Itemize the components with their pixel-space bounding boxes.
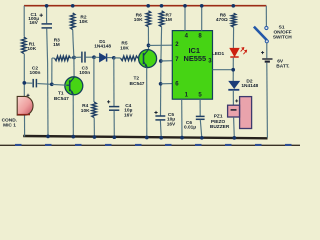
resistor R8	[231, 13, 236, 27]
svg-text:BATT.: BATT.	[276, 63, 289, 69]
wire R5 to T2 base	[138, 57, 143, 59]
wire D2 to buzzer	[232, 90, 234, 105]
node trigger junction	[147, 44, 151, 48]
svg-text:470Ω: 470Ω	[216, 17, 228, 23]
svg-text:10K: 10K	[120, 45, 129, 51]
label R8	[216, 13, 228, 23]
resistor R3	[55, 56, 71, 61]
wire to C3	[74, 56, 81, 58]
node C5 ground	[159, 136, 163, 140]
transistor T2	[139, 50, 157, 68]
svg-text:16V: 16V	[29, 20, 38, 26]
label IC1	[188, 46, 200, 55]
node R4 ground	[93, 135, 97, 139]
resistor R7	[159, 11, 164, 27]
svg-text:16V: 16V	[167, 122, 176, 128]
wire V+ top rail	[24, 5, 266, 7]
pin 7 label	[175, 57, 179, 63]
resistor R5	[121, 56, 138, 61]
svg-text:MIC 1: MIC 1	[3, 123, 16, 129]
capacitor C2	[24, 79, 52, 88]
wire battery to ground	[266, 63, 269, 138]
node mic junction	[22, 81, 26, 85]
svg-text:LED1: LED1	[212, 51, 225, 57]
pin 1 label	[185, 92, 189, 98]
wire left rail	[23, 6, 25, 137]
label C5	[167, 112, 176, 128]
node T2 emitter ground	[145, 136, 149, 140]
svg-text:10K: 10K	[79, 19, 88, 25]
wire pin5 to C6	[199, 99, 201, 116]
label NE555	[183, 54, 206, 63]
wire pin3 out	[213, 69, 234, 71]
wire T1 emitter to ground	[72, 95, 74, 137]
wire to pin2	[149, 44, 173, 46]
node C1 top	[45, 4, 49, 8]
node pin1 ground	[180, 136, 184, 140]
svg-text:16V: 16V	[124, 112, 133, 118]
label D1	[94, 39, 111, 49]
led LED1	[230, 48, 247, 57]
wire LED to D2	[232, 58, 234, 82]
wire to pin7	[161, 60, 173, 62]
label PZ1	[210, 114, 230, 131]
node T1 emitter ground	[71, 135, 75, 139]
node pin6 junction	[159, 82, 163, 86]
wire to R5	[114, 57, 121, 59]
label R3	[53, 37, 60, 48]
resistor R2	[70, 13, 75, 30]
node buzzer ground	[232, 136, 236, 140]
pin 5 label	[198, 92, 202, 98]
svg-text:1N4148: 1N4148	[241, 83, 258, 89]
svg-text:0.01µ: 0.01µ	[184, 125, 196, 131]
node C2-T1 junction	[50, 82, 54, 86]
svg-text:BUZZER: BUZZER	[210, 124, 230, 130]
capacitor C3	[82, 52, 94, 63]
wire R6 to T2 collector	[147, 27, 149, 50]
wire ground bottom rail	[23, 136, 267, 138]
transistor T1	[65, 77, 83, 95]
wire R7 down	[161, 27, 162, 116]
capacitor C4	[107, 58, 119, 137]
wire pin8 stub	[201, 6, 203, 31]
wire T1 base	[52, 83, 67, 86]
diode D1	[100, 54, 114, 62]
node R2 top	[71, 4, 75, 8]
svg-text:10K: 10K	[27, 46, 36, 52]
label S1	[273, 24, 292, 40]
battery BT1 6V	[261, 51, 272, 62]
pin 8 label	[198, 33, 202, 39]
capacitor C5	[154, 111, 165, 138]
node R8 top	[231, 4, 235, 8]
buzzer PZ1	[228, 97, 252, 129]
svg-text:1M: 1M	[53, 42, 60, 48]
wire R2 to T1 collector	[73, 30, 74, 77]
microphone MIC1	[17, 94, 33, 115]
wire to pin6	[161, 83, 173, 85]
capacitor C1	[40, 6, 53, 137]
wire pin4 stub	[184, 6, 186, 31]
capacitor C6	[196, 116, 205, 137]
label R6	[134, 12, 143, 23]
wire R3 to R2	[71, 57, 74, 59]
node R6 top	[146, 4, 150, 8]
resistor R6	[146, 11, 151, 27]
node R4 top junction	[92, 55, 96, 59]
node R2 bottom junction	[72, 56, 76, 60]
wire T2 emitter to ground	[146, 68, 148, 138]
svg-text:SWITCH: SWITCH	[273, 35, 292, 41]
node C1 ground	[46, 135, 50, 139]
wire right rail to switch	[265, 6, 267, 27]
svg-text:10K: 10K	[134, 17, 143, 23]
switch S1	[254, 26, 269, 43]
svg-text:BC547: BC547	[130, 81, 145, 87]
label C2	[30, 65, 41, 76]
svg-text:PIEZO: PIEZO	[211, 119, 226, 125]
node R7 top	[160, 4, 164, 8]
node pin4 top	[183, 4, 187, 8]
wire switch to battery	[266, 43, 268, 58]
svg-text:BC547: BC547	[54, 96, 69, 102]
node C4 ground	[112, 135, 116, 139]
pin 4 label	[185, 33, 189, 39]
label T2	[130, 76, 145, 88]
svg-text:NE555: NE555	[183, 54, 206, 63]
wire R8 to LED	[232, 27, 234, 48]
svg-text:100n: 100n	[30, 70, 41, 76]
resistor R4	[92, 57, 97, 137]
label R4	[81, 103, 90, 114]
diode D2	[228, 81, 239, 89]
wire buzzer to ground	[233, 117, 236, 138]
label R1	[27, 41, 36, 52]
svg-text:1N4148: 1N4148	[94, 44, 111, 50]
node pin3 junction	[231, 68, 235, 72]
label 6V BATT.	[276, 58, 289, 69]
pin 3 label	[208, 59, 212, 65]
label C1	[28, 12, 39, 26]
svg-text:100n: 100n	[79, 70, 90, 76]
label C6	[184, 120, 196, 131]
svg-text:T2: T2	[133, 76, 139, 82]
node pin7 junction	[159, 59, 163, 63]
node pin8 top	[200, 4, 204, 8]
label R2	[79, 15, 88, 26]
svg-text:1M: 1M	[165, 17, 172, 23]
label LED1	[212, 51, 225, 57]
svg-text:ON/OFF: ON/OFF	[273, 29, 291, 35]
label COND. MIC 1	[2, 118, 17, 129]
pin 2 label	[175, 42, 179, 48]
svg-text:T1: T1	[58, 91, 64, 97]
label D2	[241, 79, 258, 89]
op-amp U1 IC1 NE555 body	[172, 31, 212, 100]
label T1	[54, 91, 69, 102]
wire pin1 to ground	[181, 99, 183, 137]
label C4	[124, 103, 133, 119]
node C6 ground	[200, 136, 204, 140]
wire to D1	[94, 56, 100, 58]
label C3	[79, 65, 90, 76]
pin 6 label	[175, 82, 179, 88]
resistor R1	[22, 37, 27, 54]
label R5	[120, 41, 129, 52]
svg-text:PZ1: PZ1	[214, 114, 223, 120]
wire R3 branch corner	[52, 58, 55, 84]
label R7	[165, 12, 172, 23]
svg-text:10K: 10K	[81, 108, 90, 114]
svg-text:S1: S1	[279, 24, 285, 30]
node C4 top junction	[112, 56, 116, 60]
